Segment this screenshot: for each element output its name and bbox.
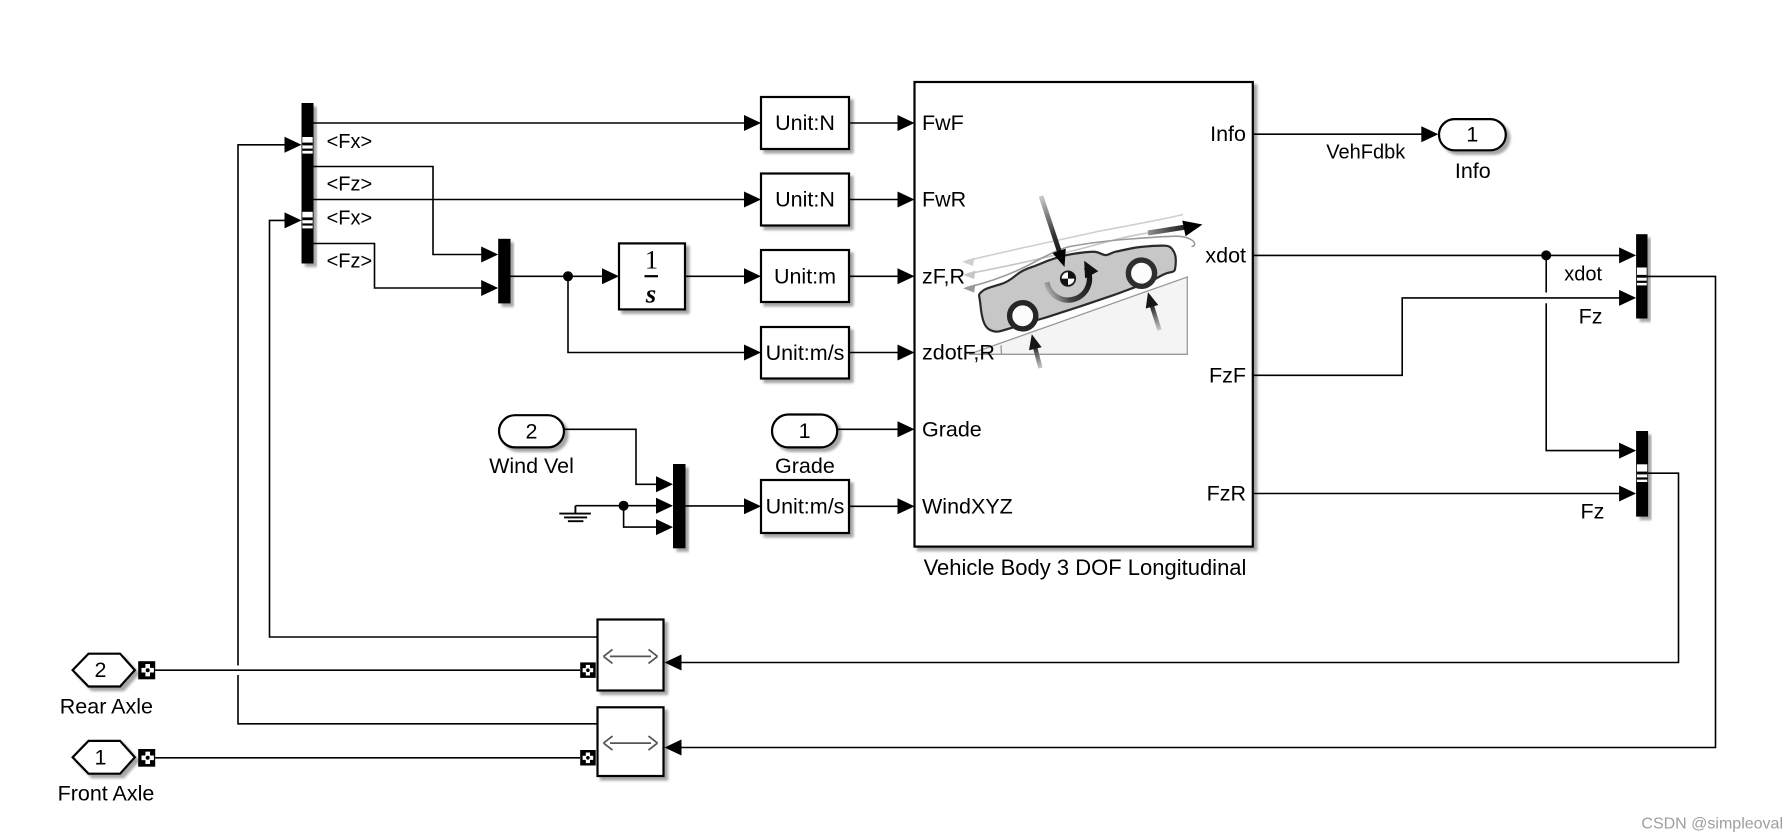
junction dot ground net <box>619 501 629 511</box>
pitch rotation arc arrow <box>1047 257 1099 300</box>
wire Info output to Info port, label VehFdbk <box>1253 133 1424 135</box>
ground symbol <box>559 506 591 522</box>
arrowhead into Mux1 input1 <box>481 247 498 263</box>
Vehicle Body 3 DOF Longitudinal block <box>915 82 1253 547</box>
physical port icon at converter 1 <box>580 662 596 678</box>
arrowhead into zdotF,R <box>898 345 915 361</box>
svg-text:Vehicle Body 3 DOF Longitudina: Vehicle Body 3 DOF Longitudinal <box>924 555 1247 580</box>
wire Unit:N 2 to FwR <box>849 199 900 201</box>
Mux1 <box>498 239 510 304</box>
svg-text:WindXYZ: WindXYZ <box>922 494 1013 518</box>
svg-text:zF,R: zF,R <box>922 264 965 288</box>
Integrator block 1/s <box>619 243 685 309</box>
xdot velocity arrow <box>1148 217 1204 237</box>
arrowhead into Unit:N 2 <box>744 192 761 208</box>
label Rear Axle <box>60 695 153 719</box>
wire BusSelector1 Fx to Unit:N 1 <box>314 122 747 124</box>
svg-text:Wind Vel: Wind Vel <box>489 454 574 478</box>
arrowhead into Integrator <box>602 268 619 284</box>
svg-text:1: 1 <box>645 245 658 275</box>
svg-text:zdotF,R: zdotF,R <box>922 341 995 365</box>
label Wind Vel <box>489 454 574 478</box>
svg-text:2: 2 <box>526 419 538 443</box>
svg-text:FwR: FwR <box>922 188 966 212</box>
arrowhead into Mux2 input1 <box>656 476 673 492</box>
streamline 1 <box>966 215 1183 262</box>
converter block 2 (front axle) <box>598 707 664 776</box>
svg-text:Grade: Grade <box>922 417 982 441</box>
label VehFdbk <box>1326 141 1406 163</box>
signal label xdot <box>1564 264 1602 286</box>
arrowhead into BusCreator1 input1 <box>1619 247 1636 263</box>
svg-text:1: 1 <box>1466 123 1478 147</box>
wire Grade port to Grade input <box>838 428 900 430</box>
arrowhead into BusCreator2 input2 <box>1619 486 1636 502</box>
car illustration: ramp wedge <box>969 277 1187 354</box>
block Unit:m <box>761 250 849 302</box>
svg-text:1: 1 <box>95 745 107 769</box>
arrowhead into BusSelector2 <box>285 212 302 228</box>
arrowhead into Mux1 input2 <box>481 280 498 296</box>
wire xdot output to BusCreator1 input1 with branch to BusCreator2 input1 <box>1253 255 1621 450</box>
arrowhead into zF,R <box>898 268 915 284</box>
converter block 1 (rear axle) <box>598 620 664 691</box>
CG checkered marker <box>1061 271 1075 285</box>
rear wheel <box>1010 303 1036 329</box>
front tire force arrow <box>1142 291 1160 330</box>
arrowhead into BusSelector1 <box>285 137 302 153</box>
signal label Fz (BusSelector1 out2) <box>327 173 373 195</box>
physical line Rear Axle to converter1 <box>155 669 580 671</box>
Mux2 <box>673 464 686 548</box>
wire BusSelector2 Fz to Mux1 input2 <box>314 244 484 289</box>
svg-text:VehFdbk: VehFdbk <box>1326 141 1406 163</box>
arrowhead into BusCreator2 input1 <box>1619 443 1636 459</box>
wire BusCreator2 output to Rear-Axle converter right input <box>679 473 1679 662</box>
physical line Front Axle to converter2 <box>155 757 580 759</box>
wire BusSelector1 Fz to Mux1 input1 <box>314 167 484 255</box>
svg-text:<Fx>: <Fx> <box>327 208 373 230</box>
svg-text:Unit:m/s: Unit:m/s <box>766 341 845 365</box>
signal label Fz (BusSelector2 out2) <box>327 250 373 272</box>
label Grade <box>775 454 835 478</box>
signal label Fz (BusCreator2) <box>1581 500 1605 524</box>
wire Mux1 output to Integrator with branch <box>511 276 747 352</box>
arrowhead into FwR <box>898 192 915 208</box>
arrowhead into converter1 right input <box>665 655 682 671</box>
svg-text:Grade: Grade <box>775 454 835 478</box>
streamline 3 <box>967 236 1195 287</box>
junction dot mux1 output <box>563 271 573 281</box>
junction dot xdot net <box>1541 250 1551 260</box>
block Unit:m/s 1 <box>761 327 849 379</box>
wire from Rear-Axle converter to BusSelector2 input <box>270 220 599 637</box>
wire Wind Vel to Mux2 input1 <box>564 429 658 484</box>
wire from Front-Axle converter to BusSelector1 input <box>238 145 598 724</box>
svg-text:xdot: xdot <box>1564 264 1602 286</box>
block Unit:N 1 <box>761 97 849 149</box>
svg-text:Fz: Fz <box>1579 305 1603 329</box>
streamline 2 <box>967 232 1152 274</box>
arrowhead into WindXYZ input <box>898 498 915 514</box>
physical port icon at Front Axle <box>138 749 155 767</box>
wire Unit:m/s 1 to zdotF,R <box>849 352 900 354</box>
svg-text:Fz: Fz <box>1581 500 1605 524</box>
arrowhead into Unit:N 1 <box>744 115 761 131</box>
wire FzR output to BusCreator2 input2 <box>1253 493 1621 495</box>
svg-text:FzF: FzF <box>1209 363 1246 387</box>
svg-text:2: 2 <box>95 658 107 682</box>
arrowhead into Unit:m/s 1 <box>744 345 761 361</box>
svg-text:FwF: FwF <box>922 111 964 135</box>
arrowhead into FwF <box>898 115 915 131</box>
signal label Fz (BusCreator1) <box>1579 305 1603 329</box>
BusSelector2 icon <box>302 212 312 229</box>
wire BusSelector2 Fx to Unit:N 2 <box>314 199 747 201</box>
block Unit:m/s 2 <box>761 480 849 533</box>
BusCreator2 <box>1636 431 1648 517</box>
block title Vehicle Body 3 DOF Longitudinal <box>924 555 1247 580</box>
arrowhead into converter2 right input <box>665 740 682 756</box>
wire Ground to Mux2 input2 and input3 <box>575 506 658 527</box>
arrowhead into Unit:m <box>744 268 761 284</box>
arrowhead into BusCreator1 input2 <box>1619 290 1636 306</box>
svg-text:Unit:m/s: Unit:m/s <box>766 494 845 518</box>
svg-text:Rear Axle: Rear Axle <box>60 695 153 719</box>
rear tire force arrow <box>1025 333 1041 368</box>
svg-text:xdot: xdot <box>1205 243 1246 267</box>
signal label Fx (BusSelector2 out1) <box>327 208 373 230</box>
inport Wind Vel <box>499 415 564 447</box>
wire Unit:m to zF,R <box>849 275 900 277</box>
front wheel <box>1128 260 1154 286</box>
svg-text:CSDN @simpleoval: CSDN @simpleoval <box>1641 816 1783 833</box>
wire Mux2 output to Unit:m/s 2 <box>686 505 747 507</box>
svg-text:<Fz>: <Fz> <box>327 250 373 272</box>
svg-text:<Fz>: <Fz> <box>327 173 373 195</box>
label Info <box>1455 159 1491 183</box>
watermark CSDN @simpleoval <box>1641 816 1783 833</box>
connection port Front Axle hexagon <box>73 741 135 774</box>
outport Info <box>1439 119 1506 150</box>
wire Unit:N 1 to FwF <box>849 122 900 124</box>
arrowhead into Mux2 input2 <box>656 498 673 514</box>
block Unit:N 2 <box>761 174 849 226</box>
svg-text:Front Axle: Front Axle <box>58 782 155 806</box>
svg-text:Unit:N: Unit:N <box>775 188 835 212</box>
svg-text:s: s <box>645 279 656 309</box>
arrowhead into Mux2 input3 <box>656 519 673 535</box>
svg-text:Unit:m: Unit:m <box>774 264 836 288</box>
svg-text:FzR: FzR <box>1207 482 1246 506</box>
arrowhead into Unit:m/s 2 <box>744 498 761 514</box>
svg-text:Unit:N: Unit:N <box>775 111 835 135</box>
arrowhead into Grade input <box>898 421 915 437</box>
arrowhead into Info outport <box>1421 126 1438 142</box>
signal label Fx (BusSelector1 out1) <box>327 131 373 153</box>
bus selector stack (BusSelector1 + BusSelector2) <box>302 103 314 264</box>
physical port icon at Rear Axle <box>138 661 155 679</box>
wire FzF output to BusCreator1 input2 <box>1253 298 1621 375</box>
car body <box>979 246 1176 332</box>
svg-text:<Fx>: <Fx> <box>327 131 373 153</box>
wire Integrator to Unit:m <box>685 275 746 277</box>
svg-text:Info: Info <box>1455 159 1491 183</box>
physical port icon at converter 2 <box>580 750 596 766</box>
BusCreator1 <box>1636 234 1647 318</box>
wire BusCreator1 output to Front-Axle converter right input <box>679 276 1716 747</box>
wire Unit:m/s 2 to WindXYZ <box>849 505 900 507</box>
label Front Axle <box>58 782 155 806</box>
force arrow onto CG <box>1041 196 1071 269</box>
BusSelector1 icon <box>302 137 312 154</box>
inport Grade <box>772 415 837 448</box>
svg-text:1: 1 <box>799 419 811 443</box>
svg-text:Info: Info <box>1210 122 1246 146</box>
connection port Rear Axle hexagon <box>73 654 135 687</box>
